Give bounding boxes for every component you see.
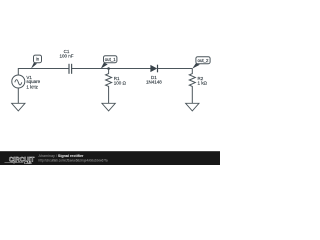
svg-text:1N4148: 1N4148 — [146, 79, 162, 84]
svg-text:1 kHz: 1 kHz — [26, 84, 38, 89]
svg-text:out_2: out_2 — [198, 58, 210, 63]
ground for R2 — [186, 103, 199, 111]
voltage source V1 — [12, 75, 25, 88]
resistor R2 — [189, 69, 195, 104]
wire: C1 right to D1 anode — [72, 68, 151, 70]
wire: V1 top to C1 left plate — [18, 68, 69, 70]
svg-text:1 kΩ: 1 kΩ — [198, 81, 208, 86]
CircuitLab logo — [5, 156, 35, 165]
diode D1 — [150, 65, 157, 73]
footer bar — [0, 151, 220, 165]
net flag out_1 — [101, 56, 117, 69]
capacitor C1 — [69, 64, 72, 74]
ground for V1 — [12, 103, 25, 111]
net flag in — [31, 55, 42, 69]
ground for R1 — [102, 103, 115, 111]
wire: V1 bottom to ground — [17, 88, 19, 103]
svg-text:Ahaminay / Signal rectifier: Ahaminay / Signal rectifier — [39, 154, 84, 158]
svg-text:out_1: out_1 — [105, 57, 117, 62]
resistor R1 — [106, 69, 112, 104]
junction node out_1 — [107, 67, 110, 70]
svg-text:http://circuitlab.com/c/5avue6: http://circuitlab.com/c/5avue68zmqe4vb8u… — [39, 158, 108, 162]
svg-text:100 Ω: 100 Ω — [114, 81, 127, 86]
wire: D1 cathode to out_2 corner — [158, 68, 193, 70]
wire: V1 riser — [17, 68, 19, 75]
net flag out_2 — [192, 57, 210, 69]
svg-text:100 nF: 100 nF — [59, 53, 73, 58]
svg-text:LAB: LAB — [24, 161, 32, 165]
svg-text:in: in — [36, 57, 40, 62]
